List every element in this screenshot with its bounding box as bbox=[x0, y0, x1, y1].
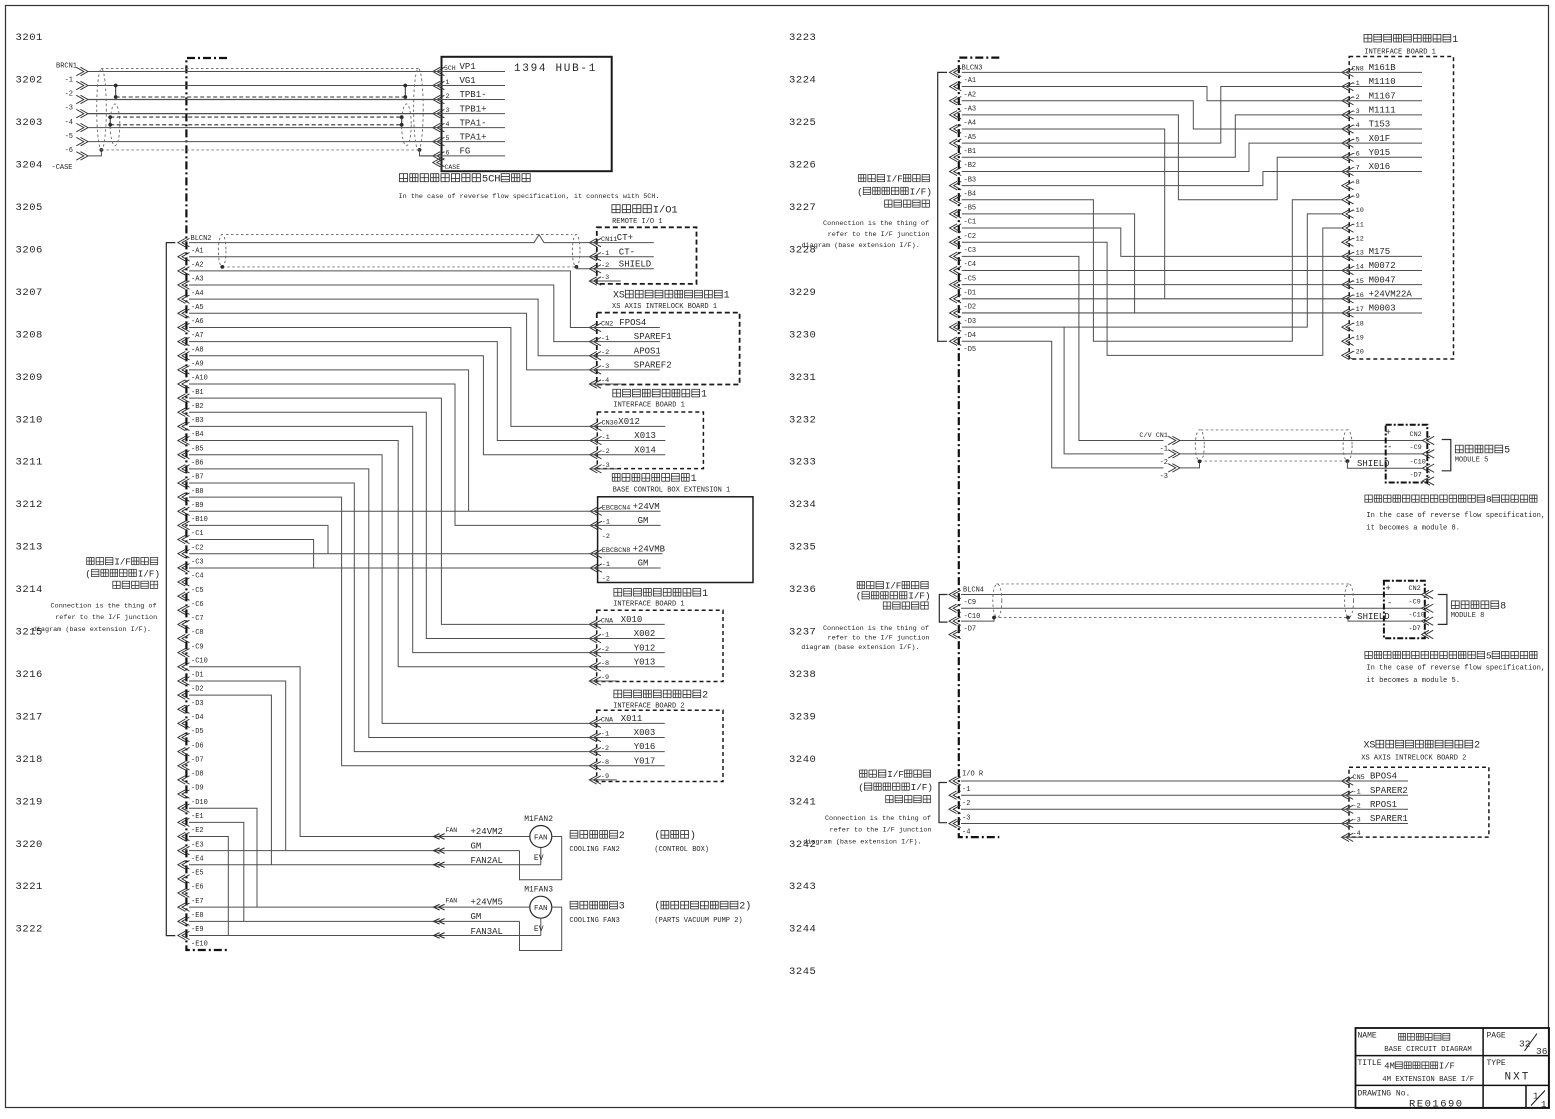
junction dot module5 shield right bbox=[1346, 459, 1350, 463]
svg-text:3245: 3245 bbox=[789, 966, 816, 978]
svg-text:-1: -1 bbox=[601, 632, 609, 640]
svg-text:CN11: CN11 bbox=[601, 236, 617, 244]
svg-text:-2: -2 bbox=[601, 745, 609, 753]
svg-text:3233: 3233 bbox=[789, 457, 816, 469]
svg-text:36: 36 bbox=[1536, 1046, 1548, 1057]
svg-text:-A5: -A5 bbox=[191, 304, 204, 312]
svg-text:(: ( bbox=[858, 782, 864, 793]
svg-text:GM: GM bbox=[471, 912, 482, 922]
svg-text:TYPE: TYPE bbox=[1487, 1059, 1506, 1068]
svg-text:-2: -2 bbox=[602, 533, 610, 541]
svg-text:3216: 3216 bbox=[16, 669, 43, 681]
svg-text:3217: 3217 bbox=[16, 711, 43, 723]
CN8 pin -17 M0003 bbox=[1342, 309, 1354, 317]
svg-text:-C9: -C9 bbox=[1410, 444, 1422, 452]
CN8 pin -10 bbox=[1342, 210, 1354, 218]
svg-text:BLCN3: BLCN3 bbox=[962, 65, 983, 73]
svg-text:-D2: -D2 bbox=[191, 686, 204, 694]
svg-text:-1: -1 bbox=[65, 77, 73, 85]
connector BRCN1 pin -5 bbox=[76, 123, 88, 131]
svg-text:-A2: -A2 bbox=[964, 91, 977, 99]
connector BLCN2 pin -D4 bbox=[178, 705, 190, 713]
svg-text:GM: GM bbox=[638, 559, 649, 569]
svg-text:-C9: -C9 bbox=[191, 643, 204, 651]
connector BLCN2 pin -C7 bbox=[178, 606, 190, 614]
wire BLCN2-E8 to FAN3 +24VM5 bbox=[189, 906, 530, 908]
svg-text:8: 8 bbox=[1500, 601, 1506, 612]
wire BLCN2-C3 to EBCBCN8 +24VMB bbox=[189, 553, 590, 555]
connector BLCN2 pin -C3 bbox=[178, 549, 190, 557]
wire BLCN4-D7 to shield bbox=[961, 618, 994, 622]
svg-text:-B5: -B5 bbox=[964, 205, 977, 213]
svg-text:-E1: -E1 bbox=[191, 813, 204, 821]
wire BLCN2-B3 to CNA1 X002 bbox=[189, 412, 589, 638]
wire shield into CN11 SHIELD bbox=[576, 267, 589, 269]
svg-text:X01F: X01F bbox=[1369, 134, 1391, 144]
wire BLCN2-A7 to CN30 X012 bbox=[189, 327, 590, 426]
connector BLCN2 pin -C6 bbox=[178, 592, 190, 600]
box INTERFACE BOARD 1 CN30 bbox=[613, 389, 621, 397]
svg-text:TPA1-: TPA1- bbox=[460, 118, 487, 128]
module8 cable shield dashed top bbox=[996, 583, 1350, 585]
svg-text:BRCN1: BRCN1 bbox=[56, 63, 77, 71]
svg-text:5: 5 bbox=[1504, 446, 1510, 457]
svg-text:-A8: -A8 bbox=[191, 346, 204, 354]
svg-text:XS AXIS INTRELOCK BOARD 1: XS AXIS INTRELOCK BOARD 1 bbox=[612, 303, 717, 311]
svg-text:3214: 3214 bbox=[16, 584, 43, 596]
svg-text:): ) bbox=[745, 901, 751, 913]
svg-text:CNA: CNA bbox=[601, 717, 614, 725]
wire BLCN2-E1 to FAN3 +24VM5 rail bbox=[189, 808, 257, 907]
svg-text:-D9: -D9 bbox=[191, 785, 204, 793]
connector BLCN2 pin -B4 bbox=[178, 422, 190, 430]
wire BLCN2-A3 to CN2 FPOS4 bbox=[189, 271, 589, 328]
cable shield lens right outer bbox=[414, 69, 424, 150]
svg-text:3230: 3230 bbox=[789, 329, 816, 341]
svg-text:-D3: -D3 bbox=[964, 318, 977, 326]
svg-text:-B3: -B3 bbox=[964, 176, 977, 184]
CN8 pin -7 X016 bbox=[1342, 167, 1354, 175]
svg-text:-B5: -B5 bbox=[191, 445, 204, 453]
wire BRCN1-5 to HUB TPA1- bbox=[88, 127, 433, 129]
svg-text:refer to the I/F junction: refer to the I/F junction bbox=[828, 231, 930, 239]
svg-text:-C3: -C3 bbox=[191, 558, 204, 566]
connector BLCN3 pin -D1 bbox=[950, 280, 962, 288]
1394 HUB-1 pin 1 VG1 bbox=[433, 81, 445, 89]
svg-text:I/O R: I/O R bbox=[962, 770, 984, 778]
1394 HUB-1 pin 4 TPA1- bbox=[433, 123, 445, 131]
svg-text:+: + bbox=[1386, 428, 1391, 438]
CN8 pin -14 M0072 bbox=[1342, 266, 1354, 274]
svg-text:3: 3 bbox=[446, 107, 450, 114]
svg-text:-10: -10 bbox=[1352, 207, 1364, 215]
svg-text:SPAREF1: SPAREF1 bbox=[634, 332, 672, 342]
svg-text:4: 4 bbox=[446, 121, 450, 128]
connector BLCN2 pin -E8 bbox=[178, 903, 190, 911]
svg-text:3234: 3234 bbox=[789, 499, 816, 511]
wire BLCN2-A6 to CN2 SPAREF2 bbox=[189, 313, 589, 370]
svg-text:EBCBCN8: EBCBCN8 bbox=[602, 547, 631, 555]
connector BLCN2 pin -B10 bbox=[178, 507, 190, 515]
svg-text:-C2: -C2 bbox=[964, 233, 977, 241]
svg-text:-2: -2 bbox=[602, 575, 610, 583]
module5 pin -C10 bbox=[1423, 464, 1435, 472]
module 8 connector dash-dot box bbox=[1384, 581, 1425, 639]
svg-text:(: ( bbox=[857, 186, 863, 197]
svg-text:+24VM22A: +24VM22A bbox=[1369, 289, 1413, 299]
connector BLCN2 pin -A7 bbox=[178, 323, 190, 331]
svg-text:(: ( bbox=[85, 568, 91, 579]
CN11 pin -2 SHIELD bbox=[589, 265, 601, 273]
svg-text:diagram (base extension I/F).: diagram (base extension I/F). bbox=[802, 242, 920, 250]
svg-text:-5: -5 bbox=[65, 133, 73, 141]
svg-text:): ) bbox=[154, 568, 160, 579]
svg-text:-E5: -E5 bbox=[191, 870, 204, 878]
svg-text:Connection is the thing of: Connection is the thing of bbox=[825, 815, 931, 823]
CN11 pin -1 CT- bbox=[589, 253, 601, 261]
svg-text:1: 1 bbox=[691, 474, 697, 485]
1394 HUB-1 pin 5CH VP1 bbox=[433, 67, 445, 75]
svg-text:CASE: CASE bbox=[445, 164, 461, 171]
svg-text:-D5: -D5 bbox=[191, 728, 204, 736]
svg-text:DRAWING No.: DRAWING No. bbox=[1358, 1090, 1411, 1099]
svg-text:-CASE: -CASE bbox=[52, 164, 73, 172]
connector BRCN1 pin -3 bbox=[76, 95, 88, 103]
wire I/O-R-4 to CN5 SPARER1 bbox=[961, 823, 1342, 825]
box REMOTE I/O 1 bbox=[612, 205, 620, 213]
CN2 pin -4 bbox=[589, 380, 601, 388]
wire BRCN1-CASE shield drain left bbox=[88, 150, 101, 156]
connector BRCN1 pin -1 bbox=[76, 67, 88, 75]
svg-text:-C5: -C5 bbox=[191, 587, 204, 595]
wire BLCN3-C4 to CV-CN1 -1 bbox=[962, 256, 1164, 440]
connector BLCN3 pin -C1 bbox=[950, 210, 962, 218]
connector BRCN1 pin -6 bbox=[76, 137, 88, 145]
svg-text:-A1: -A1 bbox=[191, 247, 204, 255]
svg-text:-1: -1 bbox=[602, 434, 610, 442]
wire BLCN2-B6 to CNA2 X011 bbox=[189, 455, 589, 724]
svg-text:-D7: -D7 bbox=[964, 626, 977, 634]
wire module5 shield to SHIELD pin bbox=[1347, 461, 1422, 468]
svg-text:NXT: NXT bbox=[1505, 1072, 1531, 1084]
module5 pin CN2 bbox=[1423, 436, 1435, 444]
svg-text:-C3: -C3 bbox=[964, 247, 977, 255]
wire BLCN3-C5 to CN8 M0072 bbox=[962, 270, 1342, 272]
svg-text:-3: -3 bbox=[962, 814, 970, 822]
svg-text:M161B: M161B bbox=[1369, 63, 1397, 73]
svg-text:): ) bbox=[927, 782, 933, 793]
svg-text:X002: X002 bbox=[634, 629, 656, 639]
module5 shield lens right bbox=[1343, 430, 1352, 462]
1394 HUB-1 pin 6 FG bbox=[433, 152, 445, 160]
svg-text:SHIELD: SHIELD bbox=[1357, 612, 1389, 622]
1394 HUB-1 pin CASE bbox=[433, 158, 445, 166]
connector BLCN4 pin -C9 bbox=[949, 590, 961, 598]
connector BRCN1 pin -4 bbox=[76, 109, 88, 117]
module 5 connector dash-dot box bbox=[1386, 425, 1428, 483]
svg-text:-A4: -A4 bbox=[191, 290, 204, 298]
connector BLCN3 pin -C4 bbox=[950, 252, 962, 260]
svg-text:3209: 3209 bbox=[16, 372, 43, 384]
svg-text:VG1: VG1 bbox=[460, 76, 476, 86]
svg-text:-11: -11 bbox=[1352, 221, 1364, 229]
svg-text:TPB1+: TPB1+ bbox=[460, 104, 487, 114]
wire BLCN2-B4 to CNA1 Y012 bbox=[189, 426, 589, 652]
svg-text:M1FAN2: M1FAN2 bbox=[524, 815, 553, 824]
svg-text:): ) bbox=[926, 186, 932, 197]
wire BLCN2-A4 to CN2 SPAREF1 bbox=[189, 285, 589, 342]
svg-text:-B2: -B2 bbox=[964, 162, 977, 170]
svg-text:-4: -4 bbox=[601, 377, 609, 385]
svg-text:T153: T153 bbox=[1369, 120, 1391, 130]
svg-text:-D4: -D4 bbox=[964, 332, 977, 340]
svg-text:-D5: -D5 bbox=[964, 346, 977, 354]
svg-text:-1: -1 bbox=[602, 561, 610, 569]
svg-text:3212: 3212 bbox=[16, 499, 43, 511]
svg-text:3202: 3202 bbox=[16, 75, 43, 87]
CN8 pin -19 bbox=[1342, 337, 1354, 345]
wire BLCN3-D4 branch to CV-CN1 -2 bbox=[1064, 327, 1163, 454]
svg-text:XS AXIS INTRELOCK BOARD 2: XS AXIS INTRELOCK BOARD 2 bbox=[1361, 754, 1466, 762]
label module 8 bbox=[1451, 601, 1459, 609]
svg-text:+24VM: +24VM bbox=[633, 502, 660, 512]
svg-text:-8: -8 bbox=[601, 660, 609, 668]
connector BLCN2 pin -C4 bbox=[178, 564, 190, 572]
connector BLCN2 pin -A9 bbox=[178, 352, 190, 360]
svg-text:-A3: -A3 bbox=[191, 276, 204, 284]
wire BRCN1-6 to HUB TPA1+ bbox=[88, 141, 433, 143]
CN8 pin -12 bbox=[1342, 238, 1354, 246]
wire I/O-R-1 to CN5 BPOS4 bbox=[961, 780, 1342, 782]
svg-text:-3: -3 bbox=[602, 462, 610, 470]
wire shield to HUB FG bbox=[420, 150, 433, 156]
svg-text:(CONTROL BOX): (CONTROL BOX) bbox=[654, 846, 709, 854]
svg-text:-3: -3 bbox=[601, 274, 609, 282]
svg-text:M1110: M1110 bbox=[1369, 77, 1396, 87]
svg-text:-4: -4 bbox=[1352, 122, 1360, 130]
svg-text:-B1: -B1 bbox=[191, 389, 204, 397]
fan M1FAN3 EV wire bbox=[540, 918, 542, 935]
CN5 pin -3 SPARER1 bbox=[1342, 819, 1354, 827]
svg-text:3225: 3225 bbox=[789, 117, 816, 129]
svg-text:-C7: -C7 bbox=[191, 615, 204, 623]
svg-text:CN2: CN2 bbox=[601, 321, 613, 329]
wire BLCN2-E4 to FAN2 GM bbox=[189, 850, 520, 852]
svg-text:2: 2 bbox=[446, 93, 450, 100]
svg-text:-A1: -A1 bbox=[964, 77, 977, 85]
connector BLCN2 pin -D7 bbox=[178, 747, 190, 755]
connector BRCN1 pin -CASE bbox=[76, 152, 88, 160]
svg-text:): ) bbox=[925, 591, 931, 602]
svg-text:-1: -1 bbox=[1353, 788, 1361, 796]
module8 cable shield dashed bottom bbox=[994, 617, 1348, 619]
svg-text:GM: GM bbox=[638, 516, 649, 526]
svg-text:Y012: Y012 bbox=[634, 643, 656, 653]
connector C/V CN1 pin -1 bbox=[1168, 436, 1180, 444]
svg-text:GM: GM bbox=[471, 841, 482, 851]
connector BLCN2 pin -D8 bbox=[178, 762, 190, 770]
wire BLCN3-D3 to CN8 M0003 bbox=[962, 312, 1342, 314]
connector BLCN2 pin -B8 bbox=[178, 479, 190, 487]
svg-text:M0072: M0072 bbox=[1369, 261, 1396, 271]
svg-text:3244: 3244 bbox=[789, 924, 816, 936]
svg-text:FAN: FAN bbox=[446, 898, 458, 905]
svg-text:-2: -2 bbox=[1353, 803, 1361, 811]
svg-text:M: M bbox=[1390, 1062, 1395, 1072]
svg-text:Y013: Y013 bbox=[634, 657, 656, 667]
svg-text:CN30: CN30 bbox=[602, 420, 618, 428]
wire BLCN3-B3 to CN8 X01F bbox=[962, 143, 1342, 171]
svg-text:F: F bbox=[897, 174, 903, 185]
svg-text:2: 2 bbox=[619, 831, 625, 842]
svg-text:FAN2AL: FAN2AL bbox=[471, 856, 503, 866]
connector BLCN3 pin -D4 bbox=[950, 323, 962, 331]
svg-text:-A5: -A5 bbox=[964, 134, 977, 142]
connector BLCN3 pin -D2 bbox=[950, 295, 962, 303]
svg-text:-2: -2 bbox=[601, 349, 609, 357]
svg-text:INTERFACE BOARD 1: INTERFACE BOARD 1 bbox=[613, 402, 684, 410]
svg-text:6: 6 bbox=[446, 149, 450, 156]
box INTERFACE BOARD 2 CNA bbox=[614, 690, 622, 698]
wire BLCN3-A4 to CN8 Y015 bbox=[962, 115, 1342, 200]
wire BRCN1-3 to HUB TPB1- bbox=[88, 99, 433, 101]
connector BLCN2 pin -B7 bbox=[178, 465, 190, 473]
svg-text:1: 1 bbox=[701, 390, 707, 401]
svg-text:1: 1 bbox=[724, 291, 730, 302]
svg-text:-6: -6 bbox=[1352, 151, 1360, 159]
wire BLCN2-B1 to EBCBCN4 GM bbox=[189, 384, 590, 525]
CN11 pin CN11 CT+ bbox=[589, 238, 601, 246]
svg-text:-1: -1 bbox=[601, 250, 609, 258]
svg-text:-B7: -B7 bbox=[191, 474, 204, 482]
connector BLCN3 pin -A5 bbox=[950, 125, 962, 133]
svg-text:BPOS4: BPOS4 bbox=[1370, 772, 1397, 782]
module8 shield lens right bbox=[1345, 584, 1354, 618]
svg-text:Connection is the thing of: Connection is the thing of bbox=[823, 220, 929, 228]
CNA board2 pin -8 Y017 bbox=[589, 762, 601, 770]
CN8 pin -18 bbox=[1342, 323, 1354, 331]
wire BLCN2-A10 to +24VM rail bbox=[189, 370, 469, 511]
svg-text:-D2: -D2 bbox=[964, 304, 977, 312]
CN8 pin -1 M1110 bbox=[1342, 82, 1354, 90]
svg-text:M175: M175 bbox=[1369, 247, 1391, 257]
svg-text:SHIELD: SHIELD bbox=[619, 259, 651, 269]
connector I/O R pin -2 bbox=[949, 791, 961, 799]
bracket module 8 bbox=[1438, 595, 1447, 625]
CNA board1 pin -1 X002 bbox=[589, 634, 601, 642]
svg-text:EV: EV bbox=[534, 925, 544, 934]
cooling fan M1FAN2 motor circle bbox=[530, 825, 552, 847]
box INTERFACE BOARD 1 CN8 bbox=[1364, 34, 1372, 42]
svg-text:FAN3AL: FAN3AL bbox=[471, 927, 503, 937]
note reverse flow module 5 japanese bbox=[1365, 651, 1372, 658]
svg-text:-C5: -C5 bbox=[964, 275, 977, 283]
svg-text:-3: -3 bbox=[601, 363, 609, 371]
connector BLCN2 pin -D6 bbox=[178, 733, 190, 741]
svg-text:3206: 3206 bbox=[16, 244, 43, 256]
connector BLCN2 pin -B6 bbox=[178, 451, 190, 459]
svg-text:X011: X011 bbox=[621, 714, 643, 724]
svg-text:RE01690: RE01690 bbox=[1409, 1099, 1464, 1111]
pair shield stubs and dots TPA bbox=[109, 117, 111, 125]
svg-text:M1111: M1111 bbox=[1369, 105, 1396, 115]
EBCBCN8 pin -1 GM bbox=[590, 564, 602, 572]
svg-text:diagram (base extension I/F).: diagram (base extension I/F). bbox=[801, 644, 919, 652]
svg-text:-18: -18 bbox=[1352, 320, 1364, 328]
svg-text:X010: X010 bbox=[621, 615, 643, 625]
connector BLCN2 pin -A10 bbox=[178, 366, 190, 374]
svg-text:NAME: NAME bbox=[1358, 1032, 1377, 1041]
fan M1FAN2 feed arrows bbox=[434, 834, 445, 840]
connector BLCN2 pin -C5 bbox=[178, 578, 190, 586]
fan M1FAN2 description japanese bbox=[570, 831, 578, 839]
wire BLCN3-C3 to CN8 -11 bbox=[962, 228, 1342, 355]
wire BLCN2-B10 to EBCBCN4 +24VM bbox=[189, 510, 590, 512]
wire BLCN2-E5 to FAN2 FAN2AL bbox=[189, 864, 541, 866]
svg-text:it becomes a module 8.: it becomes a module 8. bbox=[1366, 525, 1460, 533]
connector BLCN2 pin -A5 bbox=[178, 295, 190, 303]
svg-text:-D1: -D1 bbox=[191, 672, 204, 680]
svg-text:3222: 3222 bbox=[16, 924, 43, 936]
svg-text:PAGE: PAGE bbox=[1487, 1032, 1506, 1041]
wire BLCN3-D2 to CN8 +24VM22A bbox=[962, 298, 1342, 300]
wire BLCN3-B4 to CN8 X016 bbox=[962, 171, 1342, 185]
svg-text:-B4: -B4 bbox=[191, 431, 204, 439]
svg-text:+24VM5: +24VM5 bbox=[471, 898, 503, 908]
svg-text:-C10: -C10 bbox=[191, 657, 208, 665]
svg-text:-A10: -A10 bbox=[191, 375, 208, 383]
svg-text:INTERFACE BOARD 1: INTERFACE BOARD 1 bbox=[613, 600, 684, 608]
CNA board1 pin -8 Y013 bbox=[589, 663, 601, 671]
svg-text:-1: -1 bbox=[601, 335, 609, 343]
svg-text:-3: -3 bbox=[1160, 473, 1168, 481]
connector BLCN3 pin -D3 bbox=[950, 309, 962, 317]
connector BLCN4 pin -D7 bbox=[949, 617, 961, 625]
svg-text:3235: 3235 bbox=[789, 542, 816, 554]
CNA board1 pin CNA X010 bbox=[589, 620, 601, 628]
svg-text:+24VM2: +24VM2 bbox=[471, 827, 503, 837]
wire BLCN2-E9 to FAN3 GM bbox=[189, 920, 520, 922]
note refer to I/F junction diagram right middle bbox=[857, 582, 864, 589]
svg-text:-E3: -E3 bbox=[191, 841, 204, 849]
fan M1FAN3 description japanese bbox=[570, 901, 578, 909]
connector BLCN2 pin -E6 bbox=[178, 875, 190, 883]
bracket left of BLCN4 bbox=[939, 595, 947, 623]
connector BLCN3 pin -A2 bbox=[950, 82, 962, 90]
svg-text:-13: -13 bbox=[1352, 250, 1364, 258]
svg-text:3241: 3241 bbox=[789, 796, 816, 808]
connector BLCN2 pin -B5 bbox=[178, 436, 190, 444]
svg-text:-B9: -B9 bbox=[191, 502, 204, 510]
connector BLCN2 pin -D5 bbox=[178, 719, 190, 727]
CN8 pin -4 T153 bbox=[1342, 125, 1354, 133]
svg-text:-C10: -C10 bbox=[1409, 611, 1425, 619]
svg-text:-: - bbox=[1387, 443, 1392, 453]
svg-text:5: 5 bbox=[1486, 650, 1492, 661]
svg-text:-C6: -C6 bbox=[191, 601, 204, 609]
svg-text:1: 1 bbox=[1541, 1100, 1546, 1110]
CN8 pin -11 bbox=[1342, 224, 1354, 232]
wire BLCN3-B5 to CN8 -9 bbox=[962, 200, 1342, 342]
CN8 pin CN8 M161B bbox=[1342, 68, 1354, 76]
connector I/O R pin -4 bbox=[949, 819, 961, 827]
cooling fan M1FAN3 motor circle bbox=[530, 896, 552, 918]
wire BLCN2-B2 to CNA1 X010 bbox=[189, 398, 589, 624]
cable shield dashed line bottom bbox=[101, 149, 419, 151]
svg-text:-A3: -A3 bbox=[964, 106, 977, 114]
connector BLCN2 pin -C1 bbox=[178, 521, 190, 529]
svg-text:TPA1+: TPA1+ bbox=[460, 132, 487, 142]
